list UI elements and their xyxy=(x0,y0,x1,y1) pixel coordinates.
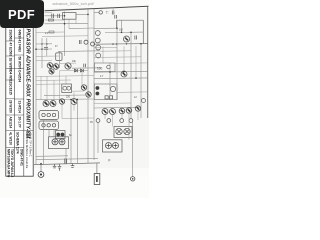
electrolytic CE7 xyxy=(106,143,112,149)
electrolytic CE4 xyxy=(61,133,65,137)
vertical wire x66 xyxy=(65,149,67,164)
node E dot xyxy=(64,15,66,17)
transistor Q14 xyxy=(86,92,91,97)
transistor Q6 xyxy=(84,40,88,44)
power box left step xyxy=(116,20,118,28)
transistor Q1 xyxy=(95,31,100,36)
capacitor C4b xyxy=(135,36,137,40)
diode D1 xyxy=(75,69,78,72)
wire y51.2 xyxy=(58,50,100,53)
svg-text:40-61 T.P 4.5 Rev C: 40-61 T.P 4.5 Rev C xyxy=(28,133,32,157)
wire y91 xyxy=(72,90,85,92)
capacitor C3b xyxy=(115,15,117,19)
vertical wire x59.5 xyxy=(59,51,61,68)
node A dot xyxy=(41,43,43,45)
connector circle J1 xyxy=(96,119,100,123)
transistor Q13 xyxy=(81,85,86,90)
ground bus wire xyxy=(34,163,100,165)
fuse F1 xyxy=(94,174,100,185)
wire y36 xyxy=(42,35,88,38)
wire y68 xyxy=(72,67,100,69)
title block row line column3 xyxy=(24,130,33,132)
svg-text:2SC1815: 2SC1815 xyxy=(8,82,12,96)
earth lead wire xyxy=(40,164,42,172)
svg-text:20-1.7P: 20-1.7P xyxy=(17,117,21,129)
ground capacitor Cg3 xyxy=(71,164,75,168)
vertical wire x131 xyxy=(130,32,132,118)
vertical wire x47 low xyxy=(46,76,48,100)
vertical wire x138 drop xyxy=(137,111,139,120)
node K dot xyxy=(130,32,132,34)
transistor Q16 xyxy=(50,101,56,107)
wire y32.3 xyxy=(105,31,143,33)
power box right edge xyxy=(142,20,144,44)
transistor Q2 xyxy=(95,38,100,43)
vertical wire x129 drop xyxy=(128,113,130,140)
power box top edge xyxy=(117,19,144,21)
connector circle J2 xyxy=(107,119,111,123)
page top edge xyxy=(45,6,149,11)
node I dot xyxy=(77,99,79,101)
contact circle K3a xyxy=(63,86,67,90)
transistor Q20 xyxy=(110,109,116,115)
relay K1 box xyxy=(63,13,77,20)
terminal circle TS2a xyxy=(42,124,45,127)
svg-text:7:: 7: xyxy=(106,11,109,15)
wire top row y15.8 xyxy=(45,15,65,17)
node Q dot xyxy=(112,43,113,44)
wire y32 xyxy=(36,31,65,33)
terminal circle TS2b xyxy=(47,124,50,127)
node D dot xyxy=(41,48,43,50)
electrolytic CE5 xyxy=(52,139,58,145)
svg-text:O+B514: O+B514 xyxy=(17,70,21,82)
svg-text:PDF: PDF xyxy=(8,7,35,22)
svg-text:DWG 47-61: DWG 47-61 xyxy=(19,149,23,166)
transistor Q23 xyxy=(135,106,140,111)
rectifier square D3 xyxy=(105,96,108,99)
transistor Q22 xyxy=(126,108,131,113)
title block small notes column3 xyxy=(25,133,33,169)
pilot lamp PL1 xyxy=(99,11,102,14)
terminal circle TS1a xyxy=(42,113,45,116)
wire y63 right xyxy=(115,62,148,65)
vertical wire x133 down xyxy=(132,122,134,177)
vertical wire x124 xyxy=(123,46,125,71)
electrolytic CE3 xyxy=(56,133,60,137)
capacitor C2 xyxy=(58,14,60,18)
node F dot xyxy=(64,23,66,25)
wire bus vertical x94 xyxy=(93,9,95,160)
wire y92 right xyxy=(117,91,148,93)
transistor Q10 xyxy=(49,69,54,74)
svg-text:AB1214: AB1214 xyxy=(8,117,12,129)
vertical wire x82 low xyxy=(81,71,83,85)
svg-text:58 W576: 58 W576 xyxy=(17,57,21,70)
title block row lines column2 xyxy=(14,38,23,148)
svg-text:MATSUNAGA MFG: MATSUNAGA MFG xyxy=(6,149,10,178)
capacitor bank box CB1 xyxy=(49,137,69,149)
node P dot xyxy=(121,32,123,34)
title block column divider 2 xyxy=(23,10,25,176)
wire y51 right xyxy=(100,50,131,52)
svg-text:O4 W51: O4 W51 xyxy=(8,70,12,82)
transistor Q7 xyxy=(91,42,95,46)
transistor Q18 xyxy=(71,99,77,105)
small box with electrolytics xyxy=(56,131,66,139)
diode D2 xyxy=(81,69,84,72)
node B dot xyxy=(46,43,48,45)
rectifier square D4 xyxy=(109,96,112,99)
node N dot xyxy=(123,71,125,73)
node O dot xyxy=(135,77,137,79)
vertical wire x136 xyxy=(135,46,137,78)
vertical wire x62 drop xyxy=(61,105,63,119)
page right edge xyxy=(147,6,149,118)
vertical wire x110 xyxy=(109,63,111,95)
terminal strip box TS2 xyxy=(39,121,59,130)
wire y46 right xyxy=(94,46,117,48)
node C dot xyxy=(35,48,37,50)
transistor Q8 xyxy=(47,63,53,69)
node J dot xyxy=(116,28,118,30)
capacitor C3 xyxy=(112,11,114,15)
vertical wire x122 drop xyxy=(121,114,123,119)
svg-text:220: 220 xyxy=(66,96,71,99)
terminal circle P1 xyxy=(131,177,135,181)
wire y14.7 xyxy=(76,13,88,15)
vertical wire x41 low xyxy=(40,76,42,99)
node H dot xyxy=(70,99,72,101)
resistor R3 xyxy=(49,31,54,33)
node T dot xyxy=(40,163,42,165)
svg-text:4L W120: 4L W120 xyxy=(8,132,12,145)
svg-text:47 E2503: 47 E2503 xyxy=(8,43,12,57)
terminal strip box TS1 xyxy=(39,111,59,120)
wire y56 xyxy=(36,55,60,57)
vertical wire x98 down xyxy=(97,122,99,153)
vertical wire x54 mid xyxy=(53,80,55,100)
transistor Q3 xyxy=(96,45,101,50)
transistor Q12 xyxy=(121,71,127,77)
vertical wire x69 xyxy=(68,19,70,28)
wire y159.3 xyxy=(36,159,98,160)
wire y118 left xyxy=(62,117,94,119)
connector circle J4 xyxy=(129,119,133,123)
wire y76 xyxy=(36,75,94,78)
wire y95 left xyxy=(44,94,88,96)
node L dot xyxy=(140,43,142,45)
title block frame xyxy=(6,10,33,176)
vertical wire x74b drop xyxy=(73,105,75,111)
wire y12.5 short xyxy=(45,12,53,14)
svg-text:2SB502: 2SB502 xyxy=(8,30,12,42)
wire y99 left xyxy=(36,98,94,101)
vertical wire x141 xyxy=(140,44,142,118)
wire y49 xyxy=(36,48,52,50)
node G dot xyxy=(87,14,89,16)
svg-text:28 W150: 28 W150 xyxy=(8,100,12,113)
electrolytic CE2 xyxy=(96,92,100,96)
terminal circle TS1b xyxy=(47,113,50,116)
table cell texts column2 xyxy=(16,30,24,167)
capacitor C6 xyxy=(79,40,81,44)
svg-text:advance_500c_sch.pdf: advance_500c_sch.pdf xyxy=(52,1,94,6)
transistor Q19 xyxy=(102,109,108,115)
electrolytic CE8 xyxy=(113,143,119,149)
vertical wire x59.5 low xyxy=(59,71,61,100)
wire y63 xyxy=(60,62,77,64)
wire y71.9 xyxy=(94,70,148,73)
svg-text:100: 100 xyxy=(119,29,124,32)
node S dot xyxy=(126,43,127,44)
capacitor C5 xyxy=(44,48,48,50)
table cell texts column1 xyxy=(6,30,14,178)
vertical wire x42 xyxy=(41,38,43,68)
wire bus vertical x88 xyxy=(87,9,89,164)
svg-text:100: 100 xyxy=(97,67,103,71)
PDF badge xyxy=(0,0,44,28)
component tick x65 xyxy=(65,158,67,163)
vertical wire x117 xyxy=(116,20,118,100)
transistor Q17 xyxy=(59,99,64,104)
filter block box xyxy=(94,84,117,100)
wire y78.4 xyxy=(94,77,148,80)
node M dot xyxy=(109,71,111,73)
wire bus vertical x64.5 xyxy=(64,12,66,57)
terminal circle TS1c xyxy=(52,113,55,116)
fuse lead upper xyxy=(96,163,98,174)
node R dot xyxy=(116,43,117,44)
svg-text:SCHEMA 1174: SCHEMA 1174 xyxy=(16,132,20,154)
wire y60 xyxy=(36,59,52,61)
lamp L2 xyxy=(124,128,130,134)
wire y70.5 xyxy=(60,69,89,71)
terminal circle T2 xyxy=(110,86,115,91)
terminal circle T1 xyxy=(107,65,111,69)
vertical wire x112 drop xyxy=(112,115,114,127)
title block row lines column1 xyxy=(6,41,15,148)
lamp L1 xyxy=(116,128,122,134)
resistor R1 xyxy=(49,19,54,21)
inner vertical x121.5 xyxy=(121,20,123,32)
earth terminal E1 xyxy=(38,172,44,178)
vertical wire x54 xyxy=(53,130,55,137)
vertical wire x105 drop xyxy=(104,115,106,120)
transistor Q4 xyxy=(96,53,101,58)
transistor Q24 xyxy=(142,99,146,103)
svg-text:TOKYO JAPAN 4-2: TOKYO JAPAN 4-2 xyxy=(10,149,14,177)
capacitor bank box CB2 xyxy=(103,140,123,152)
transistor Q21 xyxy=(119,108,125,114)
vertical wire x43.5 xyxy=(43,120,45,165)
wire y84 xyxy=(36,83,62,85)
wire y23.8 xyxy=(45,22,89,24)
wire y28.2 xyxy=(94,27,117,29)
capacitor C7 xyxy=(84,64,86,68)
ground capacitor Cg2 xyxy=(58,164,62,171)
transistor Q9 xyxy=(53,64,59,70)
wire y156 xyxy=(36,155,68,158)
vertical wire x66 mid xyxy=(65,76,67,84)
vertical wire x71 xyxy=(70,99,72,163)
lamp box xyxy=(114,127,132,138)
wire y20 xyxy=(45,19,65,21)
transistor Q11 xyxy=(65,63,71,69)
vertical wire x74 low xyxy=(73,93,75,99)
wire stub x113 xyxy=(112,7,114,10)
regulator block box xyxy=(95,63,116,72)
wire y57 right xyxy=(94,56,141,59)
wire y103 right xyxy=(94,102,131,105)
svg-text:SERVICE MANUAL circuit dia: SERVICE MANUAL circuit dia xyxy=(25,133,29,169)
contact circle K3b xyxy=(67,86,71,90)
relay K3 box xyxy=(62,84,72,93)
wire y107.5 right xyxy=(94,106,141,109)
capacitor C1 xyxy=(52,14,54,18)
wire y28.4 xyxy=(69,27,94,30)
svg-text:04N30: 04N30 xyxy=(17,30,21,40)
schematic left frame wire xyxy=(35,11,37,164)
svg-text:F: F xyxy=(109,159,111,163)
svg-text:1B W350: 1B W350 xyxy=(8,58,12,72)
electrolytic CE6 xyxy=(59,139,65,145)
vertical wire x103 xyxy=(102,46,104,63)
ground capacitor Cg1 xyxy=(53,164,57,168)
connector circle J3 xyxy=(120,119,124,123)
transistor Q5b xyxy=(124,36,130,42)
wire y80 xyxy=(36,79,71,81)
terminal circle TS2c xyxy=(52,124,55,127)
power box bottom wire xyxy=(94,43,148,46)
scanned page background xyxy=(0,0,149,198)
wire stub to lamp PL1 xyxy=(94,11,99,13)
vertical wire x46.8 xyxy=(46,38,48,56)
vertical wire x76 xyxy=(75,19,77,23)
svg-text:31-R514: 31-R514 xyxy=(17,101,21,113)
transistor Q15 xyxy=(43,101,49,107)
title block column divider 1 xyxy=(13,10,15,176)
relay K2 box xyxy=(56,53,62,61)
vertical wire x49 xyxy=(48,130,50,137)
wire y38.8 with junctions xyxy=(36,43,52,45)
vertical wire x77 xyxy=(76,99,78,163)
svg-text:41 F4N3: 41 F4N3 xyxy=(17,40,21,52)
electrolytic CE1 xyxy=(96,86,100,90)
svg-text:PICASOR ADVANCE-500X PROXIMITY: PICASOR ADVANCE-500X PROXIMITY-8M xyxy=(24,29,30,139)
